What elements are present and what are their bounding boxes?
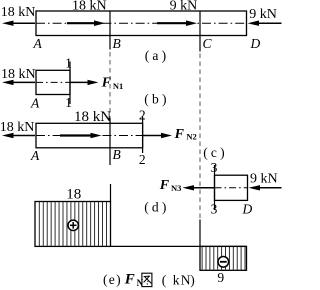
svg-text:2: 2	[139, 107, 146, 122]
9 kN load arrow at right end (pointing left)	[248, 21, 282, 26]
18 kN load arrow at left end (pointing left)	[2, 21, 35, 26]
svg-text:D: D	[242, 202, 253, 217]
svg-text:(b): (b)	[144, 92, 169, 107]
svg-text:N1: N1	[113, 81, 123, 91]
plus sign symbol	[68, 220, 78, 230]
svg-text:B: B	[113, 36, 121, 51]
dashed construction line below C	[199, 54, 201, 220]
svg-text:(a): (a)	[145, 48, 170, 63]
label FN1	[101, 76, 123, 91]
baseline axis of FN diagram	[35, 245, 247, 247]
18 kN arrow (pointing left)	[2, 80, 35, 85]
label FN2	[174, 127, 197, 142]
svg-text:18 kN: 18 kN	[74, 109, 111, 125]
caption (e) FN diagram (kN)	[103, 272, 144, 289]
section line at B	[109, 11, 111, 50]
solid extension of C line above diagram	[199, 220, 201, 247]
negative block C-D (-9)	[200, 246, 247, 270]
section line 3-3	[214, 165, 216, 210]
solid extension of B line above diagram	[110, 184, 112, 202]
svg-text:N3: N3	[171, 183, 181, 193]
svg-text:F: F	[101, 76, 112, 91]
svg-text:A: A	[33, 36, 43, 51]
caption (kN)	[162, 272, 195, 287]
svg-text:9 kN: 9 kN	[250, 171, 278, 186]
centerline of segment (c)	[36, 135, 143, 137]
FN2 arrow (pointing right)	[143, 133, 172, 138]
svg-text:(: (	[162, 272, 167, 287]
svg-text:9 kN: 9 kN	[249, 7, 277, 22]
svg-text:B: B	[113, 147, 121, 162]
svg-text:3: 3	[211, 160, 218, 175]
svg-text:9: 9	[217, 270, 224, 285]
section line 2-2	[142, 117, 144, 154]
bar centerline (dash-dot)	[36, 22, 247, 24]
FN1 arrow (pointing right)	[70, 80, 99, 85]
svg-text:3: 3	[211, 202, 218, 217]
svg-text:N2: N2	[186, 132, 196, 142]
svg-text:D: D	[250, 36, 261, 51]
svg-text:1: 1	[65, 95, 72, 110]
18 kN arrow (pointing left, row c)	[2, 133, 35, 138]
svg-text:18 kN: 18 kN	[72, 0, 107, 13]
svg-text:F: F	[124, 272, 135, 288]
svg-text:A: A	[30, 96, 40, 111]
positive block A-B (+18)	[35, 202, 111, 247]
section mark at B (row c)	[109, 118, 111, 165]
18 kN internal arrow (row c)	[60, 133, 102, 139]
svg-text:(c): (c)	[203, 145, 228, 160]
svg-text:9 kN: 9 kN	[170, 0, 198, 13]
svg-text:(e): (e)	[103, 272, 122, 287]
svg-text:kN: kN	[173, 272, 192, 287]
bar ABCD outline	[36, 11, 247, 36]
svg-text:F: F	[159, 178, 170, 193]
free body rectangle A-2	[36, 123, 143, 148]
svg-text:A: A	[30, 148, 40, 163]
section line at C	[199, 11, 201, 52]
svg-text:C: C	[203, 36, 213, 51]
18 kN internal arrow A-B (pointing right)	[67, 20, 105, 26]
svg-text:): )	[190, 272, 195, 287]
centerline of segment (d)	[215, 187, 248, 189]
svg-text:18 kN: 18 kN	[1, 5, 36, 20]
free body rectangle 3-D	[215, 175, 248, 200]
svg-text:1: 1	[65, 56, 72, 71]
section line 1-1	[69, 62, 71, 105]
svg-text:2: 2	[139, 152, 146, 167]
centerline of segment (b)	[36, 81, 70, 83]
svg-text:18: 18	[66, 186, 81, 202]
svg-text:18 kN: 18 kN	[0, 120, 34, 135]
svg-text:(d): (d)	[144, 200, 169, 215]
9 kN internal arrow B-C (pointing right)	[157, 20, 197, 26]
label FN3	[159, 178, 182, 193]
hanzi "tu" (diagram) drawn as paths	[142, 273, 152, 286]
svg-text:F: F	[174, 127, 185, 142]
free body rectangle A-1	[36, 70, 70, 94]
svg-text:18 kN: 18 kN	[1, 67, 36, 82]
FN3 arrow (pointing left)	[183, 185, 215, 190]
minus sign symbol	[218, 257, 229, 268]
9 kN arrow (pointing left, row d)	[249, 185, 282, 190]
dashed construction line below B	[109, 52, 111, 118]
